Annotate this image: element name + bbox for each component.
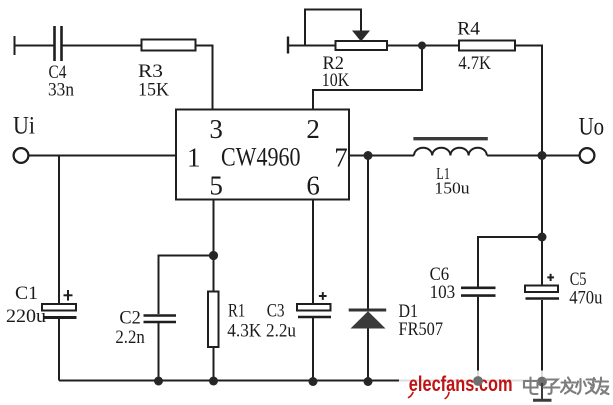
svg-text:Uo: Uo xyxy=(579,114,605,141)
svg-text:C1: C1 xyxy=(15,283,38,304)
svg-text:R1: R1 xyxy=(228,301,245,322)
svg-text:470u: 470u xyxy=(569,288,603,309)
svg-text:15K: 15K xyxy=(138,80,169,101)
svg-text:2.2n: 2.2n xyxy=(115,327,145,348)
svg-text:103: 103 xyxy=(430,282,456,303)
svg-text:33n: 33n xyxy=(48,80,74,101)
svg-text:1: 1 xyxy=(187,143,201,173)
svg-text:4.3K: 4.3K xyxy=(227,320,261,341)
svg-text:220u: 220u xyxy=(6,306,47,327)
svg-text:2.2u: 2.2u xyxy=(266,320,296,341)
svg-text:3: 3 xyxy=(209,114,223,144)
svg-text:150u: 150u xyxy=(434,178,470,197)
svg-text:elecfans.com: elecfans.com xyxy=(409,373,513,396)
svg-text:4.7K: 4.7K xyxy=(458,53,491,74)
svg-text:FR507: FR507 xyxy=(399,319,444,340)
svg-text:CW4960: CW4960 xyxy=(221,143,301,172)
svg-text:C3: C3 xyxy=(267,301,285,322)
svg-text:5: 5 xyxy=(209,171,223,201)
svg-text:10K: 10K xyxy=(322,70,350,91)
svg-text:6: 6 xyxy=(306,171,320,201)
svg-text:7: 7 xyxy=(334,143,348,173)
svg-text:2: 2 xyxy=(306,114,320,144)
svg-text:C2: C2 xyxy=(119,307,140,328)
svg-text:Ui: Ui xyxy=(13,113,35,140)
svg-text:R4: R4 xyxy=(457,19,480,40)
